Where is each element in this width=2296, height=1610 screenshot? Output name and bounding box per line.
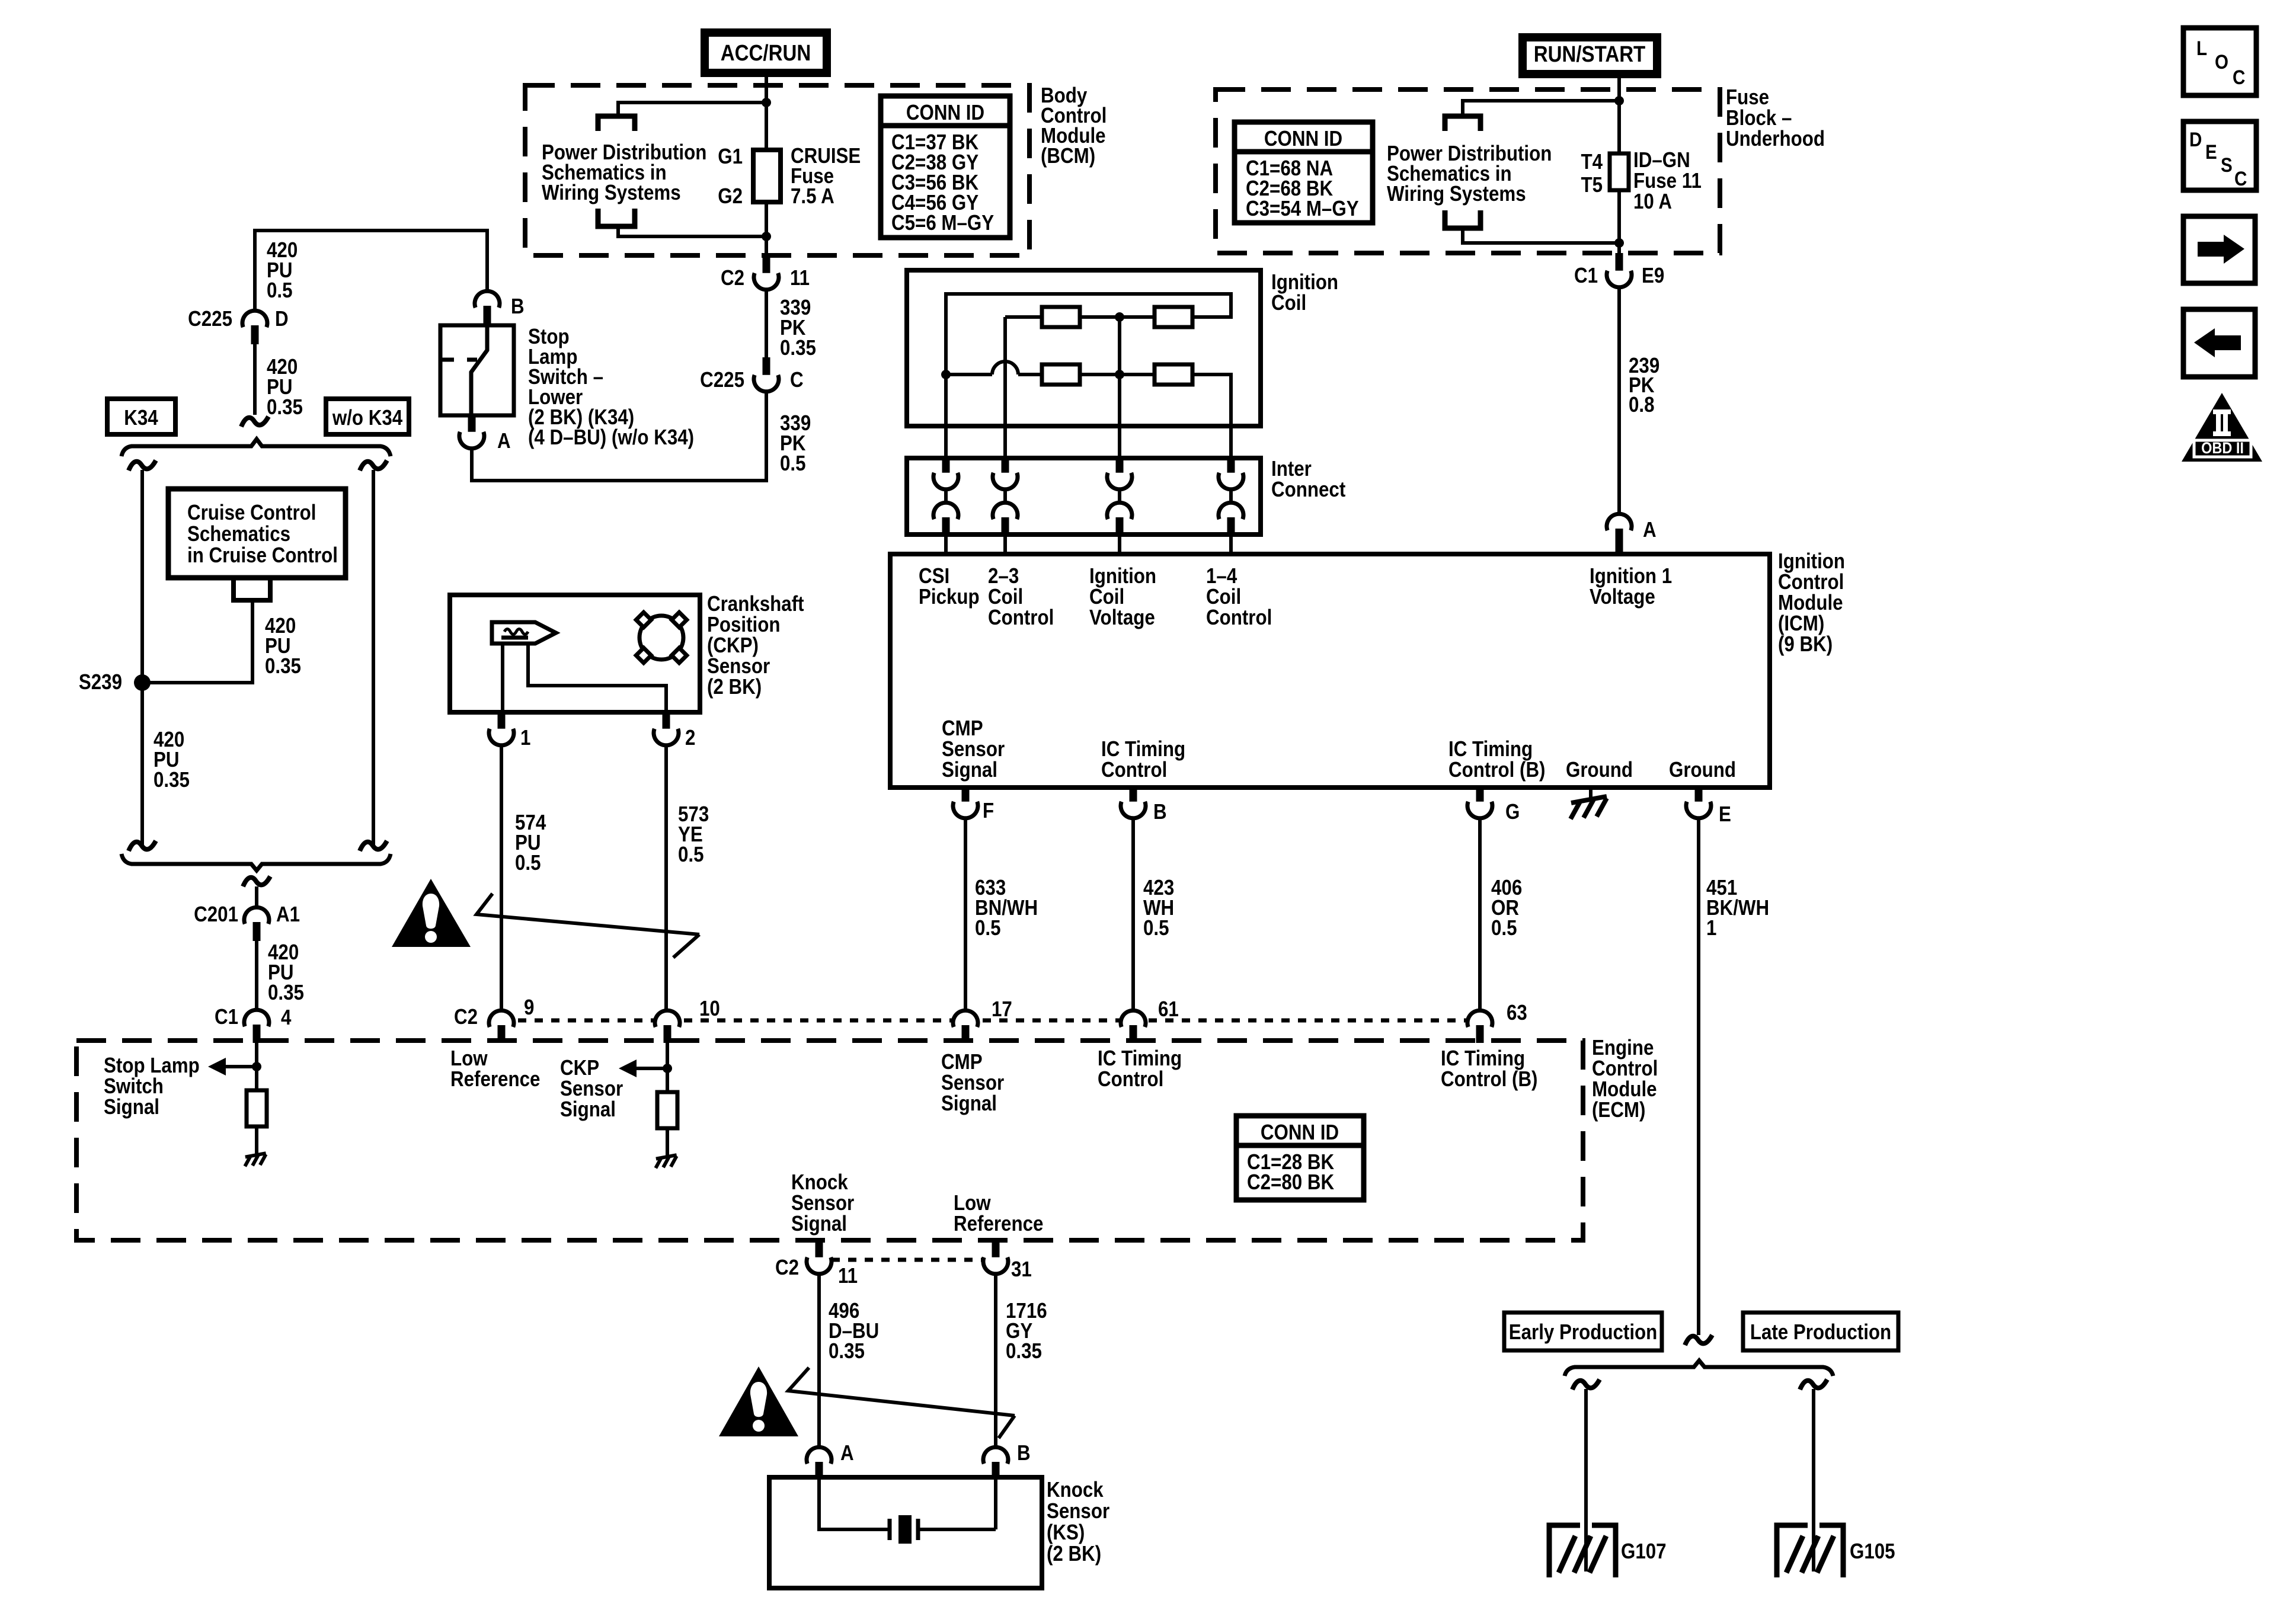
wire break above C201 bbox=[243, 876, 270, 886]
stop lamp pull resistor bbox=[255, 1067, 258, 1090]
svg-text:A: A bbox=[497, 429, 511, 453]
svg-text:31: 31 bbox=[1011, 1257, 1032, 1282]
power distribution bracket top bbox=[1445, 116, 1480, 131]
connector C2 pin 11 (knock) bbox=[816, 1241, 823, 1260]
svg-text:C2: C2 bbox=[721, 266, 744, 290]
forward arrow icon bbox=[2183, 216, 2255, 283]
connector pin 2 bbox=[663, 712, 670, 732]
internal ground (stop lamp) bbox=[245, 1153, 266, 1157]
interconnect pair 4 bbox=[1227, 457, 1235, 476]
svg-text:Schematics: Schematics bbox=[187, 522, 290, 546]
Late Production box bbox=[1743, 1313, 1898, 1350]
svg-text:Wiring Systems: Wiring Systems bbox=[542, 181, 681, 205]
svg-text:CONN ID: CONN ID bbox=[1261, 1121, 1339, 1145]
svg-text:G107: G107 bbox=[1621, 1539, 1667, 1564]
svg-text:(4 D–BU) (w/o K34): (4 D–BU) (w/o K34) bbox=[528, 425, 694, 450]
svg-text:11: 11 bbox=[790, 266, 810, 290]
svg-text:C225: C225 bbox=[188, 307, 232, 331]
connector C225 pin C bbox=[763, 357, 770, 377]
svg-text:0.35: 0.35 bbox=[829, 1339, 865, 1363]
svg-text:0.5: 0.5 bbox=[515, 851, 541, 875]
BCM power distribution bracket bottom bbox=[598, 209, 635, 226]
stop lamp switch - lower bbox=[440, 325, 514, 415]
wire break left branch bbox=[129, 460, 156, 470]
power distribution bracket bottom bbox=[1445, 210, 1480, 228]
wire left branch (K34) bbox=[140, 470, 144, 846]
svg-text:Signal: Signal bbox=[941, 1092, 997, 1116]
svg-text:E9: E9 bbox=[1642, 264, 1664, 288]
svg-text:Early Production: Early Production bbox=[1509, 1320, 1658, 1345]
connector C225 pin D bbox=[242, 311, 267, 327]
wire 1716 GY 0.35 bbox=[994, 1274, 997, 1446]
connector pin B (stop lamp switch) bbox=[475, 291, 500, 308]
svg-text:C1: C1 bbox=[1574, 264, 1598, 288]
wire break above K34 brace bbox=[241, 417, 268, 427]
CKP sensor leads bbox=[501, 644, 504, 712]
coil vertical feeds bbox=[1003, 317, 1007, 458]
svg-text:L: L bbox=[2196, 37, 2207, 59]
back arrow icon bbox=[2183, 309, 2255, 377]
wire 406 OR 0.5 bbox=[1478, 818, 1482, 1010]
ignition coil box bbox=[907, 270, 1261, 426]
svg-text:Knock: Knock bbox=[1047, 1478, 1104, 1502]
svg-text:C2=80 BK: C2=80 BK bbox=[1247, 1170, 1335, 1195]
svg-text:Sensor: Sensor bbox=[1047, 1499, 1109, 1523]
CKP pull resistor bbox=[657, 1092, 677, 1128]
svg-text:0.35: 0.35 bbox=[780, 336, 816, 360]
pointer line to knock wires bbox=[788, 1368, 1015, 1416]
wire 339 PK 0.35 bbox=[765, 290, 768, 357]
svg-text:C: C bbox=[2233, 66, 2245, 88]
svg-text:Control: Control bbox=[1098, 1067, 1163, 1092]
connector pin B (knock sensor) bbox=[983, 1447, 1008, 1464]
ground G105 bbox=[1777, 1525, 1808, 1577]
svg-text:0.35: 0.35 bbox=[154, 768, 190, 792]
svg-text:S: S bbox=[2221, 153, 2233, 176]
ECM CONN ID table bbox=[1236, 1116, 1364, 1200]
svg-text:(KS): (KS) bbox=[1047, 1521, 1085, 1545]
svg-text:G2: G2 bbox=[718, 184, 743, 209]
connector pin G bbox=[1476, 786, 1484, 805]
svg-text:RUN/START: RUN/START bbox=[1534, 41, 1646, 67]
svg-text:Ground: Ground bbox=[1669, 758, 1736, 782]
svg-text:S239: S239 bbox=[79, 670, 122, 694]
svg-text:Wiring Systems: Wiring Systems bbox=[1387, 182, 1526, 206]
svg-text:10 A: 10 A bbox=[1633, 190, 1672, 214]
BCM CONN ID table bbox=[881, 96, 1010, 238]
svg-text:0.35: 0.35 bbox=[268, 981, 304, 1005]
svg-text:Coil: Coil bbox=[1271, 291, 1306, 315]
svg-text:B: B bbox=[1153, 800, 1167, 824]
junction node bbox=[762, 232, 771, 241]
svg-text:Late Production: Late Production bbox=[1750, 1320, 1891, 1345]
svg-text:63: 63 bbox=[1507, 1001, 1527, 1025]
svg-text:Voltage: Voltage bbox=[1590, 585, 1655, 609]
svg-text:(9 BK): (9 BK) bbox=[1778, 632, 1833, 657]
RUN/START power feed box bbox=[1523, 37, 1657, 74]
alternatives brace (early/late) bbox=[1565, 1361, 1833, 1376]
wire 496 D-BU 0.35 bbox=[817, 1274, 821, 1448]
svg-text:0.5: 0.5 bbox=[780, 452, 806, 476]
connector pin A (ICM) bbox=[1607, 514, 1632, 530]
knock sensor box bbox=[769, 1477, 1042, 1588]
coil internal wiring bbox=[1005, 315, 1042, 319]
svg-text:1: 1 bbox=[1706, 916, 1716, 940]
connector C201 pin A1 bbox=[244, 907, 269, 924]
wire 420 PU 0.35 below C225 D bbox=[253, 344, 257, 415]
svg-text:F: F bbox=[983, 799, 994, 823]
svg-text:C5=6 M–GY: C5=6 M–GY bbox=[891, 211, 994, 235]
bracket under cruise control box bbox=[234, 580, 270, 600]
connector pin 63 (ECM) bbox=[1467, 1010, 1492, 1027]
ICM ground chassis symbol bbox=[1589, 788, 1593, 798]
ECM dashed outline bbox=[76, 1041, 1583, 1240]
svg-text:Connect: Connect bbox=[1271, 478, 1345, 502]
svg-text:2: 2 bbox=[685, 726, 695, 750]
splice S239 bbox=[134, 674, 151, 691]
BCM power distribution bracket top bbox=[598, 116, 635, 131]
svg-text:Voltage: Voltage bbox=[1089, 606, 1155, 630]
svg-text:0.5: 0.5 bbox=[267, 279, 293, 303]
coil primary resistor 2-3 bbox=[1042, 307, 1080, 327]
connector pin A (knock sensor) bbox=[807, 1447, 832, 1464]
wire 451 BK/WH 1 bbox=[1697, 818, 1700, 1335]
pointer line to 573 wire bbox=[477, 894, 699, 934]
Fuse Block dashed outline bbox=[1216, 89, 1720, 253]
bottom row wiring with hop over bbox=[946, 373, 992, 376]
svg-text:Signal: Signal bbox=[560, 1097, 616, 1122]
wire break left (early) bbox=[1572, 1379, 1600, 1390]
svg-text:Pickup: Pickup bbox=[919, 585, 980, 609]
crankshaft position sensor box bbox=[450, 595, 700, 712]
connector pin E bbox=[1695, 786, 1703, 805]
svg-text:OBD II: OBD II bbox=[2201, 440, 2244, 457]
wire break ends of K34 branches bbox=[129, 841, 156, 851]
svg-text:0.5: 0.5 bbox=[975, 916, 1001, 940]
svg-text:0.5: 0.5 bbox=[1491, 916, 1517, 940]
interconnect pair 3 bbox=[1116, 457, 1124, 476]
svg-text:Reference: Reference bbox=[450, 1067, 540, 1092]
svg-text:Control (B): Control (B) bbox=[1441, 1067, 1537, 1092]
wire break (451 wire) bbox=[1685, 1335, 1712, 1345]
svg-text:O: O bbox=[2215, 50, 2228, 73]
svg-text:61: 61 bbox=[1158, 997, 1179, 1022]
coil secondary resistor right bbox=[1155, 364, 1192, 385]
svg-text:C3=54 M–GY: C3=54 M–GY bbox=[1246, 197, 1359, 221]
connector pin A (stop lamp switch) bbox=[468, 415, 476, 435]
fuse block CONN ID table bbox=[1235, 122, 1373, 223]
svg-text:G: G bbox=[1505, 800, 1520, 824]
svg-text:Underhood: Underhood bbox=[1726, 127, 1825, 151]
wire to C201 bbox=[255, 886, 258, 907]
svg-text:0.35: 0.35 bbox=[267, 395, 303, 420]
svg-text:T5: T5 bbox=[1581, 173, 1603, 197]
svg-text:C: C bbox=[790, 368, 804, 392]
svg-text:A: A bbox=[1643, 518, 1657, 542]
coil primary resistor 1-4 bbox=[1155, 307, 1192, 327]
Cruise Control Schematics reference box bbox=[168, 489, 346, 578]
fine dashed line between knock pins bbox=[832, 1258, 983, 1262]
svg-text:7.5 A: 7.5 A bbox=[791, 184, 834, 209]
wire 420 PU 0.35 to ECM bbox=[255, 941, 258, 1009]
connector pin 17 (ECM) bbox=[953, 1010, 978, 1027]
CKP pickup element bbox=[492, 622, 556, 644]
svg-text:Signal: Signal bbox=[942, 758, 997, 782]
svg-text:B: B bbox=[1017, 1441, 1031, 1465]
BCM dashed outline bbox=[525, 85, 1029, 255]
svg-text:(2 BK): (2 BK) bbox=[707, 675, 762, 699]
svg-text:T4: T4 bbox=[1581, 150, 1603, 174]
DESC icon box bbox=[2183, 121, 2256, 190]
svg-text:17: 17 bbox=[992, 997, 1012, 1022]
connector pin 1 bbox=[498, 712, 506, 732]
connector pin F bbox=[962, 786, 970, 805]
CKP sensor signal arrow bbox=[634, 1067, 667, 1070]
svg-text:CONN ID: CONN ID bbox=[1264, 127, 1342, 151]
internal ground (CKP) bbox=[656, 1155, 677, 1158]
svg-text:Reference: Reference bbox=[954, 1212, 1043, 1236]
svg-text:K34: K34 bbox=[124, 406, 158, 430]
Early Production box bbox=[1504, 1313, 1662, 1350]
svg-text:0.35: 0.35 bbox=[265, 654, 301, 678]
svg-text:B: B bbox=[511, 295, 525, 319]
merge brace above C201 bbox=[121, 854, 391, 870]
svg-text:E: E bbox=[1719, 802, 1731, 827]
svg-text:C201: C201 bbox=[194, 902, 238, 927]
alternatives brace (K34 / w-o K34) bbox=[121, 439, 391, 456]
wire 420 PU 0.35 from cruise control bbox=[142, 600, 252, 683]
svg-text:11: 11 bbox=[838, 1264, 858, 1288]
CKP reluctor wheel bbox=[639, 616, 683, 660]
svg-text:G105: G105 bbox=[1850, 1539, 1895, 1564]
svg-text:Ground: Ground bbox=[1566, 758, 1633, 782]
connector pin B (ICM) bbox=[1130, 786, 1137, 805]
svg-text:A: A bbox=[840, 1441, 854, 1465]
wire into ECM stop lamp signal bbox=[255, 1043, 258, 1067]
connector pin 31 (knock low ref) bbox=[992, 1241, 1000, 1260]
svg-text:Control: Control bbox=[1206, 606, 1272, 630]
svg-text:CONN ID: CONN ID bbox=[906, 101, 984, 125]
connector C2 pin 11 bbox=[763, 255, 770, 276]
svg-text:1: 1 bbox=[520, 726, 530, 750]
svg-text:ACC/RUN: ACC/RUN bbox=[721, 40, 811, 66]
wire 633 BN/WH 0.5 bbox=[964, 818, 967, 1010]
svg-text:(ECM): (ECM) bbox=[1592, 1098, 1645, 1122]
svg-text:0.8: 0.8 bbox=[1629, 393, 1655, 417]
svg-text:Control (B): Control (B) bbox=[1448, 758, 1545, 782]
wire 574 PU 0.5 bbox=[500, 745, 503, 1010]
connector pin 61 (ECM) bbox=[1121, 1010, 1146, 1027]
ACC/RUN power feed box bbox=[705, 33, 827, 73]
connector pin 9 (ECM) bbox=[489, 1010, 514, 1027]
svg-text:C1: C1 bbox=[215, 1005, 238, 1029]
warning triangle (CKP circuit) bbox=[392, 879, 471, 947]
coil secondary resistor left bbox=[1042, 364, 1080, 385]
LOC icon box bbox=[2183, 28, 2256, 95]
ground wire to G105 bbox=[1812, 1389, 1815, 1571]
K34 option box bbox=[107, 399, 175, 434]
warning triangle (knock circuit) bbox=[719, 1366, 798, 1436]
svg-text:Control: Control bbox=[1101, 758, 1167, 782]
svg-text:D: D bbox=[275, 307, 289, 331]
wire 573 YE 0.5 bbox=[664, 745, 668, 1010]
svg-text:G1: G1 bbox=[718, 145, 743, 169]
wire from A to C225 leg bbox=[472, 392, 766, 481]
svg-text:C2: C2 bbox=[775, 1256, 799, 1280]
svg-text:0.5: 0.5 bbox=[1143, 916, 1169, 940]
svg-text:0.5: 0.5 bbox=[678, 843, 704, 867]
interconnect box bbox=[907, 458, 1261, 534]
ground G107 bbox=[1549, 1525, 1580, 1577]
ground wire to G107 bbox=[1584, 1389, 1588, 1571]
wire 423 WH 0.5 bbox=[1131, 818, 1135, 1010]
svg-text:0.35: 0.35 bbox=[1006, 1339, 1042, 1363]
junction node bbox=[762, 98, 771, 107]
ignition control module box bbox=[890, 554, 1770, 788]
svg-text:Control: Control bbox=[988, 606, 1054, 630]
svg-text:4: 4 bbox=[281, 1006, 292, 1030]
svg-text:(2 BK): (2 BK) bbox=[1047, 1542, 1101, 1566]
svg-text:10: 10 bbox=[699, 997, 720, 1021]
connector C1 pin E9 bbox=[1616, 253, 1623, 274]
w/o K34 option box bbox=[326, 399, 409, 434]
svg-text:C: C bbox=[2234, 167, 2247, 190]
interconnect pair 2 bbox=[1002, 457, 1009, 476]
connector C1 pin 4 (ECM) bbox=[244, 1010, 269, 1026]
CRUISE fuse 7.5A bbox=[753, 150, 781, 202]
knock sensor piezo element bbox=[819, 1480, 890, 1529]
wire ACC/RUN feed bbox=[618, 103, 766, 116]
svg-text:D: D bbox=[2189, 128, 2202, 151]
wire 420 PU 0.5 from BCM stop lamp feed bbox=[255, 231, 487, 310]
svg-text:(BCM): (BCM) bbox=[1041, 144, 1095, 168]
ECM pin interconnect dashed line bbox=[501, 1019, 1480, 1023]
svg-text:E: E bbox=[2205, 140, 2217, 163]
fuse 11 ID-GN 10A bbox=[1610, 153, 1629, 190]
connector pin 10 (ECM) bbox=[655, 1010, 680, 1027]
svg-text:in Cruise Control: in Cruise Control bbox=[187, 543, 338, 568]
svg-text:Cruise Control: Cruise Control bbox=[187, 501, 316, 525]
svg-text:C2: C2 bbox=[454, 1005, 478, 1029]
interconnect pair 1 bbox=[942, 457, 950, 476]
wire right branch (w/o K34) bbox=[372, 470, 375, 846]
svg-text:A1: A1 bbox=[276, 902, 300, 927]
wire break right branch bbox=[360, 460, 387, 470]
svg-text:Signal: Signal bbox=[104, 1095, 159, 1119]
wire 239 PK 0.8 bbox=[1617, 287, 1621, 513]
wire break right (late) bbox=[1800, 1379, 1827, 1390]
svg-text:w/o K34: w/o K34 bbox=[332, 406, 402, 430]
svg-text:Signal: Signal bbox=[791, 1212, 847, 1236]
OBD II icon bbox=[2182, 393, 2262, 462]
svg-text:C225: C225 bbox=[700, 368, 744, 392]
svg-text:9: 9 bbox=[524, 996, 534, 1020]
